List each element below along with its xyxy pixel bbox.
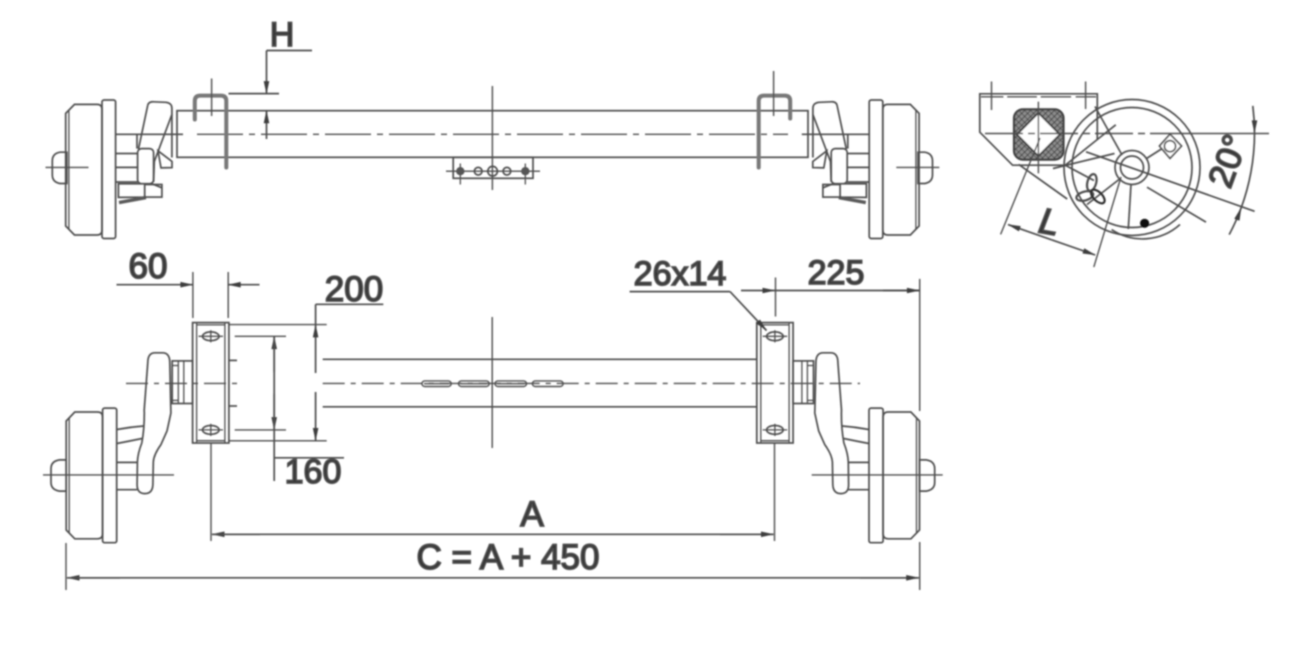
dimension 60 [117,272,260,318]
left brake drum assembly (front view) [46,100,184,239]
spokes [1095,107,1122,156]
right brake drum assembly (front view, mirrored) [802,100,940,239]
hub cap [52,152,67,183]
svg-text:60: 60 [129,247,168,286]
mounting surface line left [229,93,280,95]
left mounting plate (plan view) [193,323,229,443]
weld pills on centerline [422,381,563,387]
svg-text:C = A + 450: C = A + 450 [417,538,600,577]
bolt marks on bracket top [991,82,993,111]
svg-text:L: L [1036,200,1063,244]
U-bolt right centerline [773,71,775,116]
U-bolt left centerline [211,79,213,117]
dimension 26x14 leader [630,292,767,331]
adjuster wingnut [1075,173,1107,206]
axle tube centerline front view [197,133,788,135]
svg-text:225: 225 [808,254,865,292]
svg-text:26x14: 26x14 [634,255,727,293]
svg-text:20°: 20° [1201,130,1256,193]
dimension L [1001,138,1121,267]
axle tube plan view [229,359,757,407]
mid vertical centerline plan view [491,317,493,448]
lug dot [1140,219,1149,228]
hub centerline [46,166,89,168]
gusset under tube end [158,151,172,168]
right axle assembly (plan view, mirrored) [793,353,943,543]
brake drum (side view) [1019,100,1255,239]
drum body [66,412,102,539]
hub centerline [43,474,174,476]
svg-text:A: A [520,495,544,534]
svg-text:160: 160 [285,453,342,491]
arm silhouette lines [1019,164,1067,199]
svg-text:200: 200 [325,270,383,309]
dimension 200 [229,304,383,441]
right mounting plate (plan view, mirrored) [757,323,793,443]
tube end stub / pivot bushing [172,361,192,404]
bolt hole bottom [203,426,220,435]
U-bolt clamp right [759,96,791,168]
swing arm (front view) [148,102,172,162]
dimension A [211,443,775,541]
brake backplate lines [117,426,144,430]
horizontal reference ray (angle vertex line) [985,133,1160,135]
brake lever boss [138,149,154,184]
drum flange [103,408,117,543]
dimension 225 [741,278,920,412]
bolt hole top [203,332,220,341]
pad with hole [1160,134,1182,158]
left axle assembly (plan view) [43,353,193,543]
lower bracket [118,184,145,198]
hub cap [51,460,66,491]
rubber suspension block (hatched) [1014,109,1064,159]
drum flange [102,100,116,239]
axle tube centerline plan view [126,382,237,384]
axle tube front view [177,111,808,158]
20 deg ray through hub [1086,152,1255,212]
drum body [66,104,102,235]
axle mid vertical centerline front view [491,86,493,190]
center bracket with 5 holes (front view) [446,157,540,184]
dimension H [267,51,313,140]
dimension 20 deg arc [1229,106,1257,235]
suspension bracket (side view) [980,82,1098,166]
dimension C = A + 450 [66,542,920,590]
dimension 160 [235,336,344,481]
U-bolt clamp left [195,96,227,168]
bolt circle arc [1112,225,1180,239]
backplate lines [116,133,183,135]
svg-text:H: H [270,16,295,54]
swing arm (plan view) [137,353,171,494]
block vertical centerline [1037,102,1039,174]
